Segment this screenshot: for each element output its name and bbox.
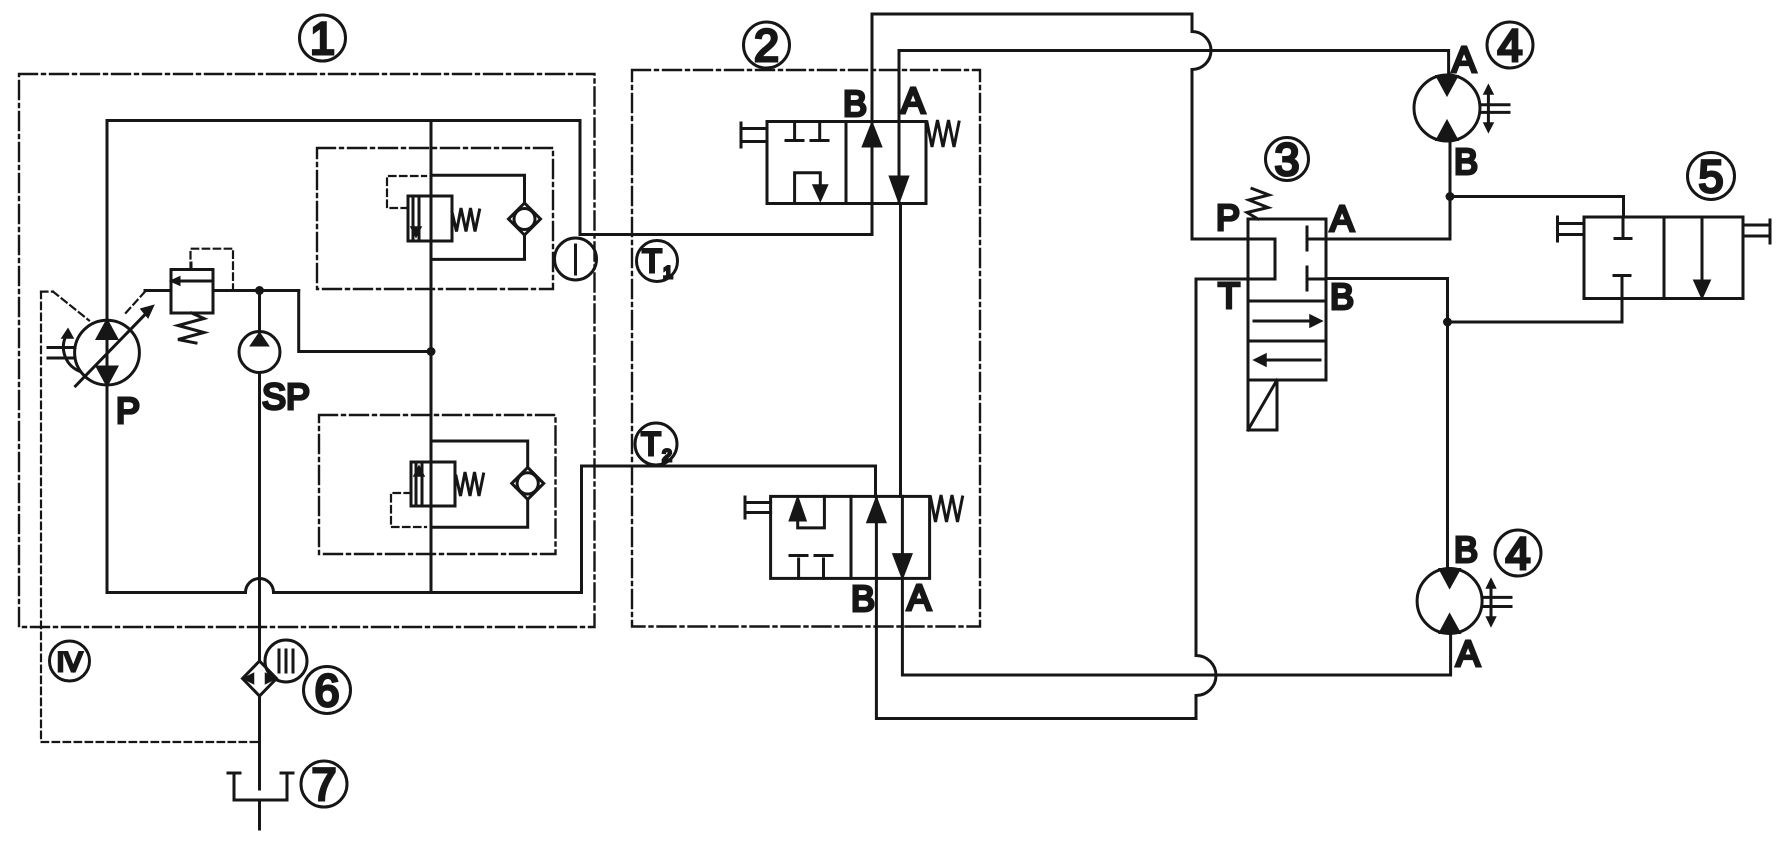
svg-text:4: 4	[1505, 528, 1530, 579]
svg-text:B: B	[1454, 141, 1478, 182]
svg-text:7: 7	[311, 759, 336, 810]
svg-text:4: 4	[1497, 20, 1522, 71]
svg-text:6: 6	[314, 665, 339, 716]
svg-text:A: A	[1452, 39, 1476, 80]
svg-text:B: B	[1454, 529, 1478, 570]
svg-text:SP: SP	[262, 376, 310, 417]
svg-text:2: 2	[662, 446, 671, 465]
svg-text:2: 2	[754, 20, 779, 71]
svg-text:A: A	[1330, 198, 1354, 239]
svg-text:B: B	[851, 578, 875, 619]
svg-text:A: A	[901, 80, 925, 121]
svg-text:5: 5	[1698, 151, 1723, 202]
svg-text:1: 1	[663, 263, 672, 282]
svg-text:T: T	[1218, 275, 1240, 316]
svg-text:P: P	[1216, 197, 1240, 238]
svg-text:B: B	[1330, 276, 1354, 317]
svg-text:P: P	[116, 390, 140, 431]
svg-text:B: B	[843, 83, 867, 124]
svg-text:1: 1	[310, 13, 335, 64]
svg-text:A: A	[1456, 633, 1480, 674]
svg-text:3: 3	[1274, 134, 1299, 185]
svg-text:IV: IV	[57, 647, 83, 677]
svg-text:T: T	[641, 426, 661, 462]
svg-text:T: T	[642, 243, 662, 279]
svg-text:A: A	[907, 577, 931, 618]
